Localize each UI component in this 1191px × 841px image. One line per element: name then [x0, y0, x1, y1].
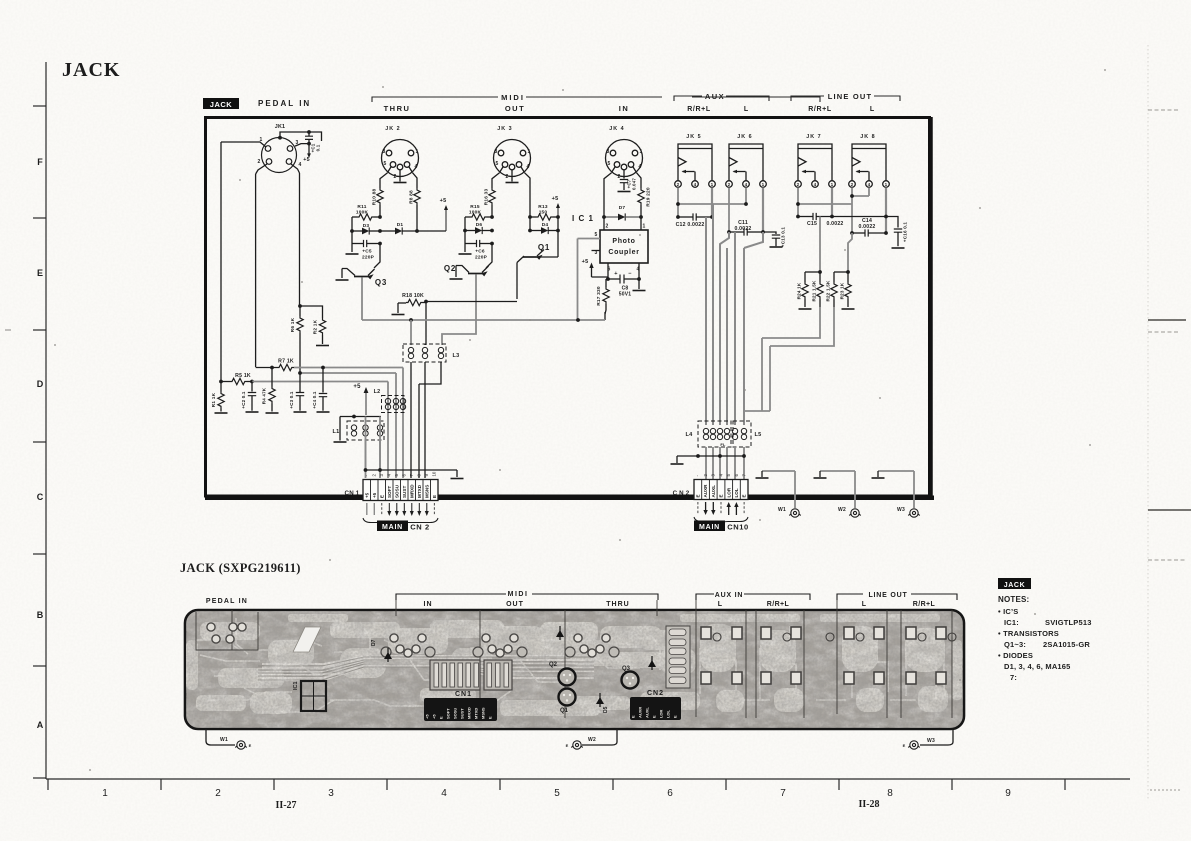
- svg-text:0.0022: 0.0022: [734, 226, 751, 232]
- svg-text:+5: +5: [582, 259, 589, 265]
- C8 lead: [606, 278, 620, 280]
- JK2 pin5 lead: [380, 173, 388, 188]
- svg-text:R2 1K: R2 1K: [313, 319, 319, 334]
- svg-text:4: 4: [639, 164, 642, 170]
- svg-text:E: E: [630, 715, 635, 718]
- ground (C8): [633, 290, 646, 292]
- lead: [819, 272, 821, 282]
- node: [307, 142, 311, 146]
- ground (C13): [770, 246, 783, 248]
- svg-text:SUST: SUST: [402, 486, 407, 498]
- svg-text:SOFT: SOFT: [446, 708, 451, 719]
- svg-text:E: E: [742, 494, 747, 497]
- node: [796, 202, 800, 206]
- W1 drop: [794, 471, 796, 508]
- svg-text:9: 9: [1005, 788, 1011, 799]
- svg-text:C: C: [37, 492, 44, 502]
- resistor R16 33: [489, 188, 495, 205]
- link to L5: [744, 411, 762, 421]
- wire: [308, 144, 310, 154]
- IC1 bus down: [577, 239, 579, 321]
- stub: [819, 471, 821, 477]
- notes JACK tag: [998, 578, 1031, 589]
- node: [761, 230, 765, 234]
- node: [250, 380, 254, 384]
- svg-text:E: E: [566, 743, 569, 748]
- svg-text:E: E: [249, 743, 252, 748]
- D4 lead: [530, 230, 541, 232]
- svg-text:LOR: LOR: [726, 487, 731, 497]
- svg-text:R18 10K: R18 10K: [402, 293, 424, 299]
- W2 bracket: [820, 470, 855, 472]
- svg-text:PEDAL IN: PEDAL IN: [258, 99, 311, 108]
- JK8 pin2 drop: [851, 188, 853, 233]
- W3 drop: [913, 471, 915, 508]
- svg-text:+C4 0.1: +C4 0.1: [312, 391, 317, 409]
- svg-text:50V1: 50V1: [619, 292, 631, 298]
- svg-text:JK 6: JK 6: [737, 134, 752, 140]
- L4 out: [743, 447, 745, 479]
- svg-text:3: 3: [383, 149, 386, 155]
- svg-text:C15: C15: [807, 221, 817, 227]
- svg-text:2: 2: [215, 788, 221, 799]
- svg-text:0.1: 0.1: [316, 144, 321, 151]
- svg-text:L2: L2: [374, 389, 381, 395]
- svg-text:A: A: [37, 720, 44, 730]
- svg-text:+5: +5: [303, 157, 310, 163]
- connector JK1 (pedal DIN): [262, 138, 297, 173]
- svg-text:JK 8: JK 8: [860, 134, 875, 140]
- left rail: [464, 217, 466, 252]
- svg-text:2SA1015-GR: 2SA1015-GR: [1043, 640, 1090, 649]
- R13 lead: [553, 216, 558, 218]
- rail to Q3: [374, 244, 380, 269]
- D3 lead: [370, 230, 381, 232]
- L4 out: [734, 447, 736, 479]
- bundle: [705, 217, 707, 425]
- svg-text:E: E: [651, 715, 656, 718]
- svg-text:E: E: [696, 494, 701, 497]
- svg-text:1: 1: [102, 788, 108, 799]
- svg-text:L: L: [744, 106, 749, 113]
- JK3 pin4 lead: [525, 173, 531, 217]
- svg-text:JK 4: JK 4: [609, 126, 624, 132]
- connector JK 8 (phone jack): [849, 144, 890, 187]
- bus y367: [294, 367, 403, 369]
- margin dash: [5, 329, 11, 331]
- svg-text:4: 4: [299, 162, 302, 168]
- svg-text:0.047: 0.047: [632, 178, 637, 190]
- C12 lead: [678, 216, 693, 218]
- CN1 brace: [363, 518, 438, 526]
- svg-text:6: 6: [667, 788, 673, 799]
- node: [818, 270, 822, 274]
- node: [378, 215, 382, 219]
- pin4 drop: [638, 263, 640, 279]
- node: [490, 242, 494, 246]
- feed: [848, 233, 852, 272]
- JK5 pin2 drop: [677, 188, 679, 218]
- bundle jog: [744, 232, 763, 248]
- R5 lead: [221, 381, 230, 383]
- return drop: [761, 338, 763, 411]
- bundle: [734, 232, 736, 425]
- ground (L1): [334, 441, 347, 443]
- svg-text:R15: R15: [470, 204, 480, 210]
- svg-text:220P: 220P: [362, 255, 375, 261]
- svg-text:OUT: OUT: [505, 104, 525, 113]
- JK5 pin1 drop: [711, 188, 713, 218]
- bottom ruler line: [46, 779, 1130, 790]
- IC1 pin5 out: [578, 238, 601, 240]
- PCB pedal pads: [207, 623, 215, 631]
- W2 drop: [854, 471, 856, 508]
- svg-text:3: 3: [607, 149, 610, 155]
- JK4 pin5 lead: [604, 173, 612, 217]
- svg-text:JACK: JACK: [210, 100, 233, 109]
- connector JK 5 (phone jack): [675, 144, 716, 187]
- inductor block L5: [733, 421, 751, 447]
- svg-text:I C 1: I C 1: [572, 214, 594, 223]
- speckles: [54, 69, 1106, 771]
- svg-text:R13: R13: [538, 204, 548, 210]
- Q1 collector: [538, 256, 558, 258]
- svg-text:E: E: [432, 495, 437, 498]
- inverted JACK tag: [203, 98, 239, 109]
- R7 lead: [256, 367, 277, 369]
- resistor R8 88: [414, 188, 420, 205]
- W3 lead: [920, 729, 953, 745]
- ground (W2): [814, 477, 827, 479]
- capacitor C13: [772, 235, 780, 238]
- node: [556, 229, 560, 233]
- svg-text:JK 7: JK 7: [806, 134, 821, 140]
- svg-text:+5: +5: [372, 492, 377, 498]
- svg-text:+C2 0.1: +C2 0.1: [241, 391, 246, 409]
- C12 lead: [696, 216, 712, 218]
- R1 lower: [220, 409, 222, 412]
- node: [424, 300, 428, 304]
- svg-text:D4: D4: [542, 222, 549, 228]
- svg-text:Q2: Q2: [549, 662, 558, 668]
- wire C1 to pin3: [295, 144, 309, 147]
- C5 lead: [367, 243, 380, 245]
- R11 lead: [352, 216, 357, 218]
- D1 lead: [403, 230, 447, 232]
- Q2 emitter: [482, 266, 489, 273]
- svg-text:MRXD: MRXD: [467, 707, 472, 719]
- R4 lower: [271, 404, 273, 412]
- L4 out: [705, 447, 707, 479]
- wire: [379, 440, 381, 478]
- svg-text:• DIODES: • DIODES: [998, 651, 1033, 660]
- L3 to CN1: [410, 362, 412, 478]
- wire: [592, 276, 609, 278]
- R18 gnd lead: [397, 303, 399, 313]
- svg-text:CN1: CN1: [455, 691, 472, 698]
- svg-text:F: F: [37, 157, 43, 167]
- capacitor C14: [865, 229, 868, 236]
- svg-text:LINE OUT: LINE OUT: [828, 92, 873, 101]
- stub: [877, 471, 879, 477]
- wire: [491, 205, 493, 217]
- Q1 emitter: [537, 250, 544, 257]
- node: [278, 136, 282, 140]
- capacitor C12: [693, 213, 696, 220]
- bus y381: [252, 381, 388, 383]
- svg-text:+5: +5: [353, 384, 361, 390]
- svg-text:L1: L1: [333, 429, 340, 435]
- PCB DIN pads: [390, 634, 398, 642]
- CN1 signal arrows: [366, 503, 368, 515]
- ground (DIN pin2): [511, 177, 513, 182]
- R17 drop: [605, 304, 606, 314]
- lead: [804, 272, 806, 282]
- lead: [819, 299, 821, 307]
- svg-text:+5: +5: [432, 714, 437, 719]
- svg-text:Q3: Q3: [622, 666, 631, 672]
- node: [219, 380, 223, 384]
- svg-text:FL: FL: [720, 442, 726, 447]
- IC1 pin3 out: [592, 250, 601, 252]
- Q3 collector: [342, 269, 355, 276]
- svg-text:Q1: Q1: [538, 243, 550, 252]
- wire: [256, 164, 267, 174]
- supply +5: [557, 207, 559, 217]
- node: [850, 194, 854, 198]
- transistor Q1: [523, 256, 538, 258]
- W1 lead: [206, 729, 235, 745]
- ground (R24): [799, 308, 812, 310]
- wire: [677, 455, 744, 457]
- node: [490, 229, 494, 233]
- D7 lead: [626, 216, 642, 218]
- wire: [291, 164, 300, 173]
- svg-text:CN2: CN2: [647, 690, 664, 697]
- return drop: [762, 346, 770, 411]
- JK7 pin2 drop: [797, 188, 799, 217]
- svg-text:SOSU: SOSU: [394, 484, 399, 498]
- C15 lead: [816, 216, 886, 218]
- capacitor C15: [813, 213, 816, 220]
- svg-text:R/R+L: R/R+L: [767, 601, 790, 608]
- svg-text:1: 1: [762, 182, 765, 187]
- node: [490, 215, 494, 219]
- svg-text:IN: IN: [619, 104, 630, 113]
- R2 top: [300, 306, 323, 318]
- JK3 pin5 lead: [492, 173, 500, 188]
- svg-text:JK 5: JK 5: [686, 134, 701, 140]
- svg-text:4: 4: [745, 182, 748, 187]
- node: [350, 229, 354, 233]
- svg-text:AUXR: AUXR: [703, 484, 708, 498]
- stub: [424, 344, 426, 345]
- lead: [847, 272, 849, 282]
- svg-text:2: 2: [677, 182, 680, 187]
- C6 lead: [480, 243, 492, 245]
- svg-text:R16 33: R16 33: [484, 189, 490, 206]
- wire: [640, 205, 642, 217]
- wire: [365, 417, 367, 471]
- coil (L4/L5): [710, 428, 715, 439]
- svg-text:+5: +5: [364, 492, 369, 498]
- PCB AUX IN bracket: [696, 594, 810, 600]
- svg-text:SOSU: SOSU: [453, 708, 458, 719]
- capacitor C16: [894, 229, 902, 232]
- svg-text:AUXR: AUXR: [637, 707, 642, 718]
- bus drop x396: [395, 373, 397, 478]
- D6 lead: [465, 230, 475, 232]
- svg-text:2: 2: [728, 182, 731, 187]
- coil (L3): [408, 347, 413, 358]
- D3 lead: [352, 230, 362, 232]
- svg-text:CN 2: CN 2: [410, 523, 430, 532]
- svg-text:JACK: JACK: [62, 59, 120, 81]
- svg-text:E: E: [719, 494, 724, 497]
- Q1 to R18 bus: [516, 263, 518, 300]
- node: [742, 454, 746, 458]
- node: [409, 318, 413, 322]
- wire: [221, 142, 266, 147]
- ground (R23): [842, 308, 855, 310]
- node: [884, 215, 888, 219]
- node: [727, 230, 731, 234]
- ground (R1): [215, 412, 228, 414]
- Q1 lead: [517, 256, 524, 263]
- L4 out: [712, 447, 714, 479]
- resistor R19 220: [638, 188, 644, 205]
- R22 return: [770, 307, 834, 346]
- svg-text:C12 0.0022: C12 0.0022: [676, 222, 705, 228]
- left rail: [351, 217, 353, 252]
- L1 left drop: [339, 417, 341, 441]
- R11 lead: [374, 216, 380, 218]
- C11 lead: [729, 231, 744, 233]
- C4 lead: [322, 397, 324, 411]
- ground (DIN pin2): [399, 177, 401, 182]
- wire: [416, 205, 418, 231]
- svg-text:PEDAL IN: PEDAL IN: [206, 598, 248, 605]
- coil (L4/L5): [741, 428, 746, 439]
- C13 top lead: [763, 232, 776, 234]
- R17 to bus: [604, 312, 606, 320]
- coil (L4/L5): [732, 428, 737, 439]
- PCB connector CN1: [424, 698, 497, 721]
- ground (C2): [246, 411, 259, 413]
- node: [637, 277, 641, 281]
- C2 lead: [251, 382, 253, 392]
- column numbers: [102, 788, 1011, 799]
- W2 lead: [582, 729, 617, 745]
- svg-text:SUST: SUST: [460, 708, 465, 719]
- ground (Q2): [450, 278, 463, 280]
- svg-text:1: 1: [640, 149, 643, 155]
- W3 bracket: [878, 470, 914, 472]
- node: [270, 366, 274, 370]
- PCB copper traces: [186, 614, 962, 716]
- svg-text:0.0022: 0.0022: [826, 221, 843, 227]
- C1 leads: [308, 132, 310, 143]
- svg-text:4: 4: [441, 788, 447, 799]
- svg-text:5: 5: [384, 161, 387, 167]
- C13 lead: [775, 238, 777, 246]
- AUX group bracket: [674, 96, 769, 101]
- PCB IC1: [301, 681, 326, 711]
- svg-text:LOL: LOL: [665, 709, 670, 718]
- svg-text:100K: 100K: [469, 210, 482, 216]
- svg-text:1: 1: [831, 182, 834, 187]
- wire: [591, 267, 593, 277]
- svg-text:MAIN: MAIN: [699, 524, 720, 531]
- JK8 pin1 drop: [885, 188, 887, 233]
- L1 top: [340, 416, 381, 418]
- svg-text:CN10: CN10: [727, 523, 749, 532]
- ground (C16): [892, 247, 905, 249]
- svg-text:AUXL: AUXL: [711, 485, 716, 498]
- svg-text:MTXD: MTXD: [417, 484, 422, 498]
- JK2 pin4 lead: [413, 173, 418, 188]
- svg-text:JK 3: JK 3: [497, 126, 512, 132]
- MAIN tag (CN2): [694, 521, 725, 532]
- PCB L4/L5 coils: [666, 626, 690, 688]
- node: [415, 229, 419, 233]
- svg-text:R24 1K: R24 1K: [797, 282, 802, 299]
- R13 lead: [530, 216, 536, 218]
- lead: [847, 299, 849, 307]
- ground: [346, 253, 359, 255]
- Q3 collector drop: [341, 269, 343, 279]
- ground (W1): [756, 477, 769, 479]
- wire (to C1): [280, 132, 322, 141]
- L3 to CN1: [418, 384, 420, 478]
- JK6 pin2 drop: [728, 188, 730, 233]
- svg-text:C N 2: C N 2: [673, 490, 690, 497]
- capacitor C6: [477, 240, 480, 247]
- feed R21: [819, 217, 821, 273]
- connector CN1: [363, 480, 438, 501]
- node: [321, 366, 325, 370]
- svg-text:5: 5: [595, 232, 598, 238]
- node: [796, 215, 800, 219]
- svg-text:1: 1: [643, 224, 646, 230]
- C2 lead: [251, 396, 253, 411]
- bundle: [712, 204, 714, 425]
- PCB connector CN2: [630, 697, 681, 720]
- svg-text:+5: +5: [440, 198, 447, 204]
- svg-text:JK 2: JK 2: [385, 126, 400, 132]
- svg-text:2: 2: [258, 159, 261, 165]
- svg-text:MRXD: MRXD: [409, 484, 414, 498]
- rail: [529, 217, 531, 231]
- node: [352, 415, 356, 419]
- svg-text:2: 2: [394, 174, 397, 180]
- node: [378, 229, 382, 233]
- ground (C4): [317, 411, 330, 413]
- bus R18 to Q1: [426, 301, 517, 303]
- ground (Q3): [336, 279, 349, 281]
- ground (C3): [294, 411, 307, 413]
- R17 lead: [605, 279, 607, 287]
- node: [576, 318, 580, 322]
- R2 lower: [322, 335, 324, 344]
- svg-text:THRU: THRU: [384, 104, 411, 113]
- R6 lead: [299, 306, 301, 316]
- svg-text:L5: L5: [755, 432, 762, 438]
- svg-text:+C13 0.1: +C13 0.1: [781, 227, 786, 248]
- svg-text:2: 2: [606, 224, 609, 230]
- connector JK 2 (DIN): [382, 140, 419, 177]
- ground (R18): [392, 314, 405, 316]
